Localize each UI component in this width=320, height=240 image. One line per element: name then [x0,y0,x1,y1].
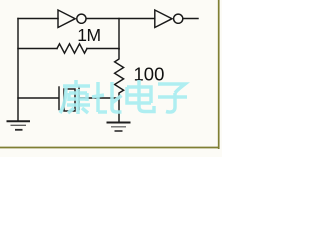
wire left rail node A [17,19,19,121]
wire node A to crystal Y1 [18,97,59,99]
wire R1 to node B rail [87,48,119,50]
resistor R1 1M zigzag [57,44,87,53]
wire input top-left corner to inverter U1 input [18,18,58,20]
border frame right [218,0,220,149]
inverter U2 [155,10,183,28]
ground GND2 (below R2) [107,123,131,132]
watermark char 电 [127,80,154,112]
wire crystal Y1 to node C [80,97,119,99]
wire node A to resistor R1 [18,48,57,50]
resistor R2 100 zigzag vertical [115,49,124,121]
svg-text:1M: 1M [77,25,101,45]
wire U2 output [183,18,198,20]
wire U1 output to U2 input [87,18,155,20]
watermark 康比电子 [60,80,187,114]
watermark char 子 [158,84,187,112]
border frame bottom [0,147,220,149]
watermark char 康 [60,80,90,114]
ground GND1 (left) [7,121,31,130]
node B junction drop to 1M/100 [118,19,120,50]
inverter U1 [58,10,86,28]
watermark char 比 [92,82,122,112]
crystal Y1 [59,87,79,111]
